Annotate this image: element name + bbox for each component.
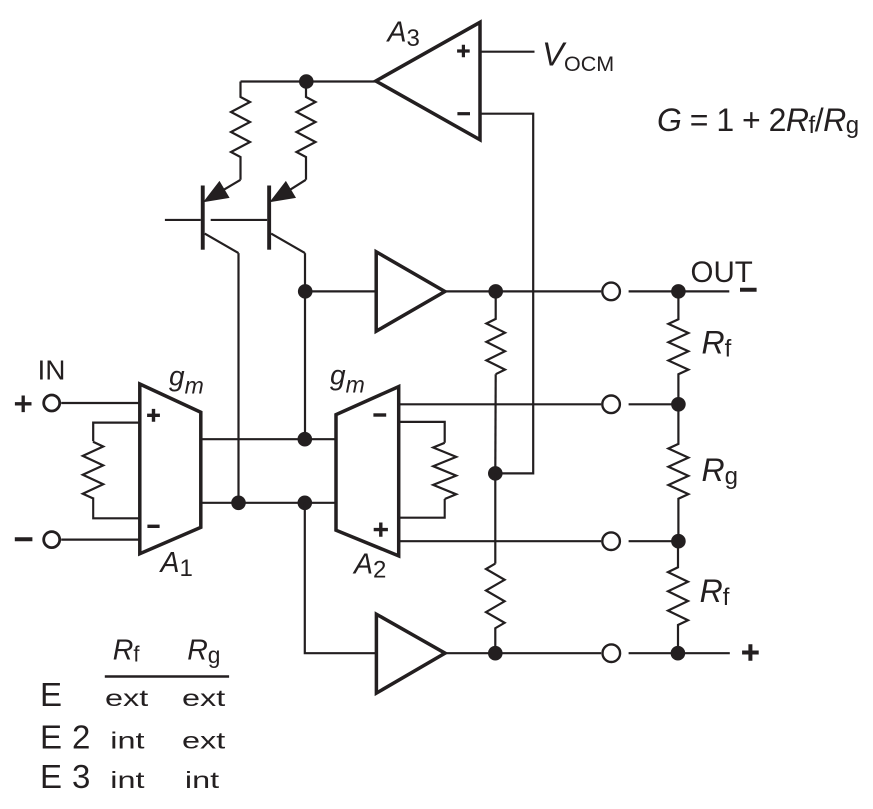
terminal: OUT+ pin circle bbox=[603, 644, 621, 662]
node: buffer-1 output / internal Rf tap bbox=[488, 284, 503, 299]
node: internal divider node bbox=[488, 466, 503, 481]
svg-text:ext: ext bbox=[182, 727, 225, 754]
transistor Q1 (left PNP follower) bbox=[165, 180, 241, 253]
label OUT with minus bbox=[691, 256, 757, 290]
label VOCM bbox=[542, 36, 614, 77]
node: OUT+ external junction bbox=[671, 646, 686, 661]
resistor Rg (external) bbox=[668, 404, 688, 541]
transistor Q2 (right PNP follower) bbox=[211, 180, 306, 253]
table row E2 bbox=[40, 718, 225, 755]
label Rf bottom bbox=[700, 573, 730, 611]
label A2 bbox=[352, 549, 386, 584]
node: OUT- external junction bbox=[671, 284, 686, 299]
label IN bbox=[38, 355, 66, 386]
table: Rf column header bbox=[113, 635, 141, 667]
resistor: left emitter degeneration resistor bbox=[231, 82, 250, 180]
buffer B2 (output driver, OUT+) bbox=[376, 614, 445, 693]
terminal: OUT- pin circle bbox=[602, 283, 620, 301]
resistor Rf (top external) bbox=[668, 291, 688, 404]
svg-text:int: int bbox=[110, 727, 144, 754]
wire: A2 top output row to OUT+ feedback tap bbox=[399, 403, 679, 405]
resistor: A2 input degeneration loop bbox=[399, 422, 457, 518]
wire: x=495 vertical from divider node to lower resistor bbox=[494, 473, 496, 563]
svg-text:int: int bbox=[185, 766, 219, 793]
wire: A3 inverting input feedback down to internal divider node bbox=[480, 114, 533, 474]
wire: branch from lower row down to buffer 2 bbox=[305, 503, 377, 653]
resistor: right emitter degeneration resistor bbox=[297, 82, 316, 180]
wire: into buffer 1 bbox=[305, 290, 376, 292]
svg-text:ext: ext bbox=[182, 684, 225, 711]
resistor Rf (bottom external) bbox=[668, 541, 688, 653]
wire: Q2 collector down through buffer-1 node to upper interstage row bbox=[304, 253, 306, 439]
svg-text:ext: ext bbox=[105, 684, 148, 711]
label plus at OUT+ bbox=[742, 644, 759, 661]
svg-text:G = 1 + 2Rf/Rg: G = 1 + 2Rf/Rg bbox=[657, 102, 859, 139]
svg-text:IN: IN bbox=[38, 355, 66, 386]
wire: buffer-2 output row to OUT+ bbox=[445, 652, 730, 654]
wire: upper interstage row (A1 top output to A2) bbox=[201, 438, 336, 440]
terminal: IN- bbox=[15, 532, 140, 548]
terminal: feedback tap circle (row 404) bbox=[602, 396, 620, 414]
node: buffer-2 output / internal Rf tap bbox=[488, 646, 503, 661]
resistor: internal feedback (upper, x=495) bbox=[486, 291, 505, 374]
svg-text:E: E bbox=[40, 676, 62, 713]
terminal: IN+ bbox=[15, 395, 140, 412]
label Rf top bbox=[702, 324, 732, 362]
wire: x=495 vertical from resistor to divider node bbox=[494, 374, 497, 473]
label gain formula bbox=[657, 102, 859, 139]
wire: lower interstage row (A1 bottom output to A2) bbox=[201, 502, 336, 504]
label A1 bbox=[159, 547, 193, 582]
wire: buffer-1 output row to OUT- bbox=[445, 290, 729, 292]
node: lower row / buffer-2 branch bbox=[298, 496, 313, 511]
table: header rule bbox=[105, 675, 229, 678]
gm stage A1 bbox=[140, 384, 201, 554]
label gm of A2 bbox=[330, 359, 365, 397]
op-amp U1 (A3) bbox=[376, 22, 480, 140]
node: buffer-1 input junction bbox=[298, 284, 313, 299]
gm stage A2 bbox=[336, 387, 399, 556]
svg-text:E2: E2 bbox=[40, 718, 100, 755]
table row E bbox=[40, 676, 225, 713]
svg-text:OUT: OUT bbox=[691, 256, 753, 289]
buffer B1 (output driver, OUT-) bbox=[376, 252, 445, 331]
node: Rg/Rf junction lower bbox=[671, 534, 686, 549]
table row E3 bbox=[40, 758, 219, 795]
label Rg bbox=[702, 452, 738, 490]
label gm of A1 bbox=[169, 360, 204, 398]
node: Rf/Rg junction upper bbox=[671, 397, 686, 412]
node: upper row / Q2 collector bbox=[298, 432, 313, 447]
node: lower row / Q1 collector bbox=[231, 496, 246, 511]
svg-text:int: int bbox=[110, 766, 144, 793]
wire: Q1 collector down to lower interstage row bbox=[237, 253, 239, 503]
label A3 bbox=[386, 16, 420, 52]
wire: A2 bottom output row bbox=[399, 540, 679, 542]
resistor: internal feedback (lower, x=495) bbox=[486, 564, 505, 654]
svg-text:E3: E3 bbox=[40, 758, 100, 795]
wire: A3 noninverting input to VOCM bbox=[480, 51, 535, 53]
wire: top rail from left emitter resistor to A3 apex bbox=[241, 80, 376, 82]
terminal: feedback tap circle (row 541) bbox=[602, 532, 620, 550]
table: Rg column header bbox=[187, 635, 220, 668]
node: top rail junction above right emitter resistor bbox=[299, 74, 314, 89]
resistor: A1 input degeneration loop bbox=[83, 423, 140, 519]
